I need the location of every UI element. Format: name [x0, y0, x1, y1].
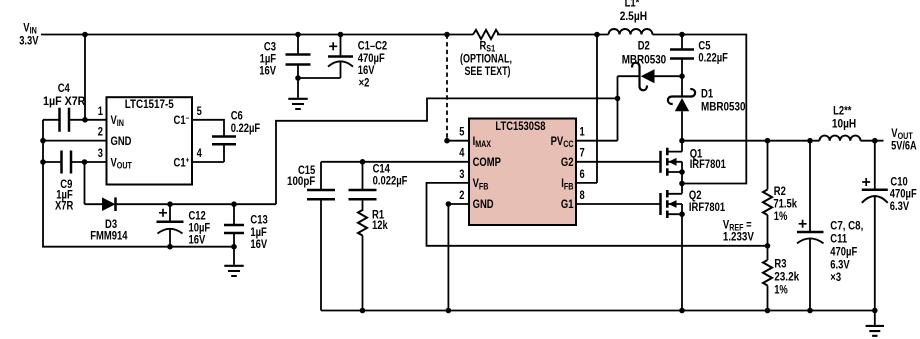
svg-text:×3: ×3	[830, 272, 841, 284]
svg-text:470µF: 470µF	[358, 53, 385, 65]
svg-text:IRF7801: IRF7801	[689, 202, 726, 214]
inductor L2	[820, 136, 861, 141]
wire dashed IMAX to VIN rail	[446, 35, 448, 141]
ground under C13	[233, 247, 235, 265]
wire L1 right to switch node	[653, 35, 747, 184]
capacitor C7 C8 C11	[809, 141, 811, 311]
svg-text:3.3V: 3.3V	[19, 36, 39, 48]
U1 pin numbers	[98, 106, 202, 160]
svg-text:8: 8	[580, 190, 586, 202]
svg-text:C13: C13	[250, 215, 267, 227]
wire VFB pin 3 to VREF node	[427, 183, 768, 246]
svg-text:D1: D1	[701, 89, 714, 101]
svg-text:L1*: L1*	[625, 0, 640, 9]
svg-text:C12: C12	[189, 211, 206, 223]
ground under C3	[297, 78, 299, 98]
svg-text:IRF7801: IRF7801	[690, 159, 727, 171]
transistor Q2 IRF7801	[661, 184, 726, 311]
svg-text:X7R: X7R	[55, 200, 74, 212]
svg-text:RS1: RS1	[480, 40, 496, 53]
wire G1 pin 8 to Q2 gate	[576, 203, 661, 205]
svg-text:6: 6	[580, 169, 585, 181]
svg-text:2.5µH: 2.5µH	[620, 11, 647, 23]
node switch junction	[679, 181, 685, 187]
node dots on VIN rail	[82, 32, 685, 38]
inductor L1	[609, 29, 653, 34]
wire top rail between RS1 and L1	[497, 34, 609, 36]
capacitor C13	[231, 201, 237, 207]
svg-text:C3: C3	[264, 41, 276, 53]
svg-text:12k: 12k	[372, 220, 388, 232]
svg-text:10µF: 10µF	[189, 222, 211, 234]
svg-text:16V: 16V	[189, 235, 206, 247]
svg-text:4: 4	[197, 148, 203, 160]
svg-text:16V: 16V	[250, 239, 267, 251]
svg-text:6.3V: 6.3V	[890, 201, 910, 213]
svg-text:100pF: 100pF	[287, 176, 315, 188]
svg-text:L2**: L2**	[833, 106, 852, 118]
svg-text:FMM914: FMM914	[90, 231, 128, 243]
svg-text:C6: C6	[231, 110, 243, 122]
svg-text:1%: 1%	[774, 284, 788, 296]
svg-text:D3: D3	[105, 219, 117, 231]
svg-text:0.22µF: 0.22µF	[231, 123, 261, 135]
svg-text:4: 4	[459, 148, 465, 160]
wire G2 pin 7 to Q1 gate	[576, 161, 661, 163]
capacitor C6	[192, 120, 224, 162]
svg-text:0.22µF: 0.22µF	[698, 53, 728, 65]
svg-text:G2: G2	[561, 157, 574, 169]
svg-text:C14: C14	[373, 164, 391, 176]
wire VIN rail to U1 pin 1	[85, 35, 107, 120]
svg-text:×2: ×2	[359, 77, 370, 89]
wire U1 pin 2 GND stub	[43, 140, 107, 142]
svg-text:1: 1	[98, 106, 104, 118]
capacitor C15	[320, 162, 322, 311]
capacitor C10	[874, 141, 876, 311]
svg-text:1µF: 1µF	[260, 54, 276, 66]
svg-text:LTC1517-5: LTC1517-5	[125, 99, 175, 111]
resistor R3	[767, 246, 769, 260]
capacitor C4	[43, 119, 85, 121]
svg-text:6.3V: 6.3V	[830, 259, 850, 271]
svg-text:2: 2	[459, 190, 464, 202]
svg-text:C5: C5	[698, 41, 711, 53]
wire IMAX pin 5 stub	[447, 140, 469, 142]
svg-text:16V: 16V	[358, 65, 375, 77]
diode D3 FMM914	[85, 203, 277, 205]
wire bottom ground rail	[321, 310, 875, 312]
svg-text:470µF: 470µF	[830, 246, 857, 258]
svg-text:LTC1530S8: LTC1530S8	[495, 121, 546, 133]
capacitor C9	[43, 161, 85, 163]
svg-text:C7, C8,: C7, C8,	[830, 221, 863, 233]
wire U1 pin 3 VOUT node	[85, 162, 107, 204]
svg-text:D2: D2	[638, 41, 650, 53]
transistor Q1 IRF7801	[661, 141, 727, 184]
svg-text:3: 3	[98, 148, 103, 160]
capacitor C12	[167, 201, 173, 207]
svg-text:71.5k: 71.5k	[773, 199, 797, 211]
svg-text:1µF: 1µF	[250, 227, 266, 239]
node VOUT label	[891, 128, 917, 152]
svg-text:1.233V: 1.233V	[723, 232, 754, 244]
node VREF label	[723, 220, 754, 244]
svg-text:0.022µF: 0.022µF	[373, 175, 408, 187]
wire COMP pin 4	[321, 161, 469, 163]
node VIN source label	[19, 22, 39, 47]
resistor RS1	[473, 30, 499, 39]
IC U1 LTC1517-5	[107, 97, 193, 184]
svg-text:SEE TEXT): SEE TEXT)	[465, 66, 511, 78]
ground bottom right	[874, 310, 876, 325]
svg-text:1: 1	[580, 127, 586, 139]
svg-text:C1–C2: C1–C2	[358, 41, 387, 53]
wire ground rail left side	[43, 120, 234, 247]
wire IFB pin 6 to VIN rail	[576, 35, 597, 183]
diode D1 MBR0530	[681, 76, 683, 141]
svg-text:C4: C4	[58, 83, 71, 95]
svg-text:COMP: COMP	[473, 157, 502, 169]
svg-text:1%: 1%	[774, 211, 788, 223]
svg-text:GND: GND	[473, 199, 494, 211]
svg-text:VOUT: VOUT	[891, 128, 913, 141]
svg-text:16V: 16V	[259, 66, 276, 78]
wire VIN top rail	[41, 34, 473, 36]
svg-text:(OPTIONAL,: (OPTIONAL,	[460, 54, 512, 66]
svg-text:7: 7	[580, 148, 585, 160]
U2 pin numbers	[459, 127, 585, 202]
svg-text:23.2k: 23.2k	[774, 272, 800, 284]
svg-text:470µF: 470µF	[890, 189, 917, 201]
svg-text:MBR0530: MBR0530	[622, 55, 667, 67]
IC U2 LTC1530S8	[469, 119, 576, 226]
wire mid VOUT rail	[682, 140, 884, 142]
wire PVCC pin 1 to boost node	[576, 76, 618, 141]
svg-text:3: 3	[459, 169, 464, 181]
wire GND pin 2 of U2	[448, 204, 469, 311]
svg-text:R3: R3	[774, 259, 786, 271]
capacitor C5	[681, 35, 683, 77]
wire PVCC feed from charge pump	[276, 98, 618, 204]
capacitor C14	[360, 159, 366, 165]
svg-text:GND: GND	[111, 136, 132, 148]
svg-text:G1: G1	[561, 199, 574, 211]
capacitor C1-C2	[298, 35, 341, 79]
capacitor C3	[297, 35, 299, 79]
svg-text:MBR0530: MBR0530	[701, 101, 746, 113]
svg-text:C11: C11	[830, 234, 847, 246]
diode D2 MBR0530	[618, 75, 683, 77]
svg-text:5V/6A: 5V/6A	[891, 140, 917, 152]
svg-text:C10: C10	[890, 176, 907, 188]
svg-text:Q2: Q2	[689, 190, 702, 202]
resistor R1	[358, 210, 367, 236]
svg-text:2: 2	[98, 127, 103, 139]
svg-text:5: 5	[459, 127, 465, 139]
svg-text:VIN: VIN	[23, 22, 37, 35]
resistor R2	[767, 141, 769, 190]
svg-text:R2: R2	[774, 186, 786, 198]
svg-text:10µH: 10µH	[832, 119, 856, 131]
svg-text:1µF X7R: 1µF X7R	[43, 96, 86, 108]
svg-text:5: 5	[197, 106, 203, 118]
